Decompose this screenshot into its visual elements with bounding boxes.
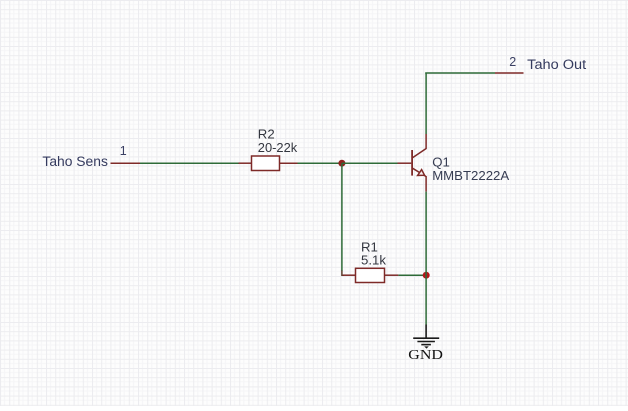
wire: Taho Sens lead (red) bbox=[111, 162, 141, 164]
ground bbox=[413, 325, 439, 349]
svg-text:2: 2 bbox=[509, 55, 516, 69]
junction A bbox=[338, 160, 345, 167]
wire: Taho Sens to R2 bbox=[140, 162, 239, 164]
wire: collector up bbox=[425, 73, 427, 134]
wire: junction A down to R1 row bbox=[341, 163, 343, 271]
svg-text:Taho Sens: Taho Sens bbox=[42, 154, 108, 169]
svg-text:Taho Out: Taho Out bbox=[527, 57, 586, 72]
wire: emitter down to ground bbox=[425, 192, 427, 325]
svg-text:5.1k: 5.1k bbox=[361, 253, 386, 268]
wire: corner to R1 left bbox=[342, 271, 344, 276]
wire: collector to Taho Out bbox=[425, 72, 495, 74]
wire: junction A to Q1 base bbox=[342, 162, 398, 164]
svg-text:GND: GND bbox=[408, 348, 443, 363]
resistor R1 bbox=[343, 268, 399, 282]
svg-text:1: 1 bbox=[120, 144, 127, 158]
wire: R2 to junction A bbox=[298, 162, 343, 164]
resistor R2 bbox=[239, 156, 298, 171]
wire: R1 to junction B bbox=[398, 274, 426, 276]
svg-text:20-22k: 20-22k bbox=[258, 140, 298, 155]
wire: Taho Out lead (red) bbox=[495, 72, 524, 74]
svg-text:MMBT2222A: MMBT2222A bbox=[432, 168, 509, 183]
transistor Q1 bbox=[398, 134, 427, 192]
junction B bbox=[423, 272, 430, 279]
